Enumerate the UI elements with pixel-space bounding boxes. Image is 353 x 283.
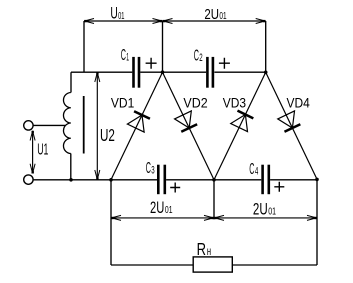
label C4 (249, 161, 258, 178)
node apex 2 (264, 71, 268, 75)
extension line left (83, 21, 85, 72)
dimension U1 (30, 131, 35, 174)
svg-text:U1: U1 (37, 141, 48, 158)
dimension line 2U01 bottom right (214, 215, 317, 220)
node bottom left (109, 178, 113, 182)
node transformer bottom (69, 178, 73, 182)
label C3 (146, 160, 155, 177)
dimension line 2U01 bottom left (111, 215, 214, 220)
transformer core (83, 96, 85, 154)
wire diagonal 1 (111, 72, 163, 180)
label 2U01 bottom left (150, 198, 173, 217)
svg-text:C: C (194, 48, 199, 65)
svg-text:VD4: VD4 (287, 94, 310, 110)
node bottom mid (212, 178, 216, 182)
label 2U01 bottom right (253, 200, 276, 219)
svg-text:3: 3 (151, 165, 154, 177)
svg-text:R: R (197, 239, 206, 259)
svg-text:2U: 2U (150, 198, 164, 217)
svg-text:01: 01 (165, 205, 173, 216)
svg-text:01: 01 (118, 11, 125, 22)
diode VD1 (127, 111, 150, 132)
terminal bottom (24, 175, 33, 184)
wire diagonal 4 (266, 72, 317, 179)
svg-text:C: C (146, 160, 151, 177)
extension line bottom mid (213, 180, 215, 220)
svg-text:4: 4 (255, 166, 258, 178)
wire top rail (71, 71, 266, 73)
plus sign C1 (146, 58, 157, 69)
diode VD2 (175, 111, 198, 132)
label C1 (121, 47, 129, 64)
svg-text:01: 01 (268, 207, 276, 218)
transformer winding T1 (70, 72, 72, 180)
svg-text:2U: 2U (253, 200, 268, 219)
svg-text:н: н (207, 244, 211, 258)
label C2 (194, 48, 203, 65)
node bottom right (315, 178, 319, 182)
capacitor C1 (134, 57, 140, 88)
wire load loop left (110, 180, 112, 265)
svg-text:U2: U2 (100, 125, 115, 145)
capacitor C3 (158, 165, 165, 195)
svg-text:U: U (110, 5, 117, 23)
capacitor C2 (207, 57, 213, 88)
label 2U01 top (204, 6, 226, 23)
svg-text:C: C (249, 161, 254, 178)
svg-text:VD2: VD2 (183, 94, 207, 110)
resistor RH (193, 257, 232, 272)
diode VD3 (231, 110, 254, 131)
plus sign C3 (170, 183, 180, 193)
svg-text:01: 01 (219, 11, 226, 22)
wire bottom rail (33, 179, 317, 181)
capacitor C4 (263, 165, 269, 195)
wire diagonal 3 (214, 72, 266, 180)
plus sign C2 (219, 58, 230, 69)
dimension line U01 (84, 19, 163, 24)
wire tap (33, 124, 65, 126)
wire diagonal 2 (163, 72, 215, 180)
coil arcs (63, 93, 70, 154)
svg-text:VD3: VD3 (223, 94, 246, 110)
svg-text:2U: 2U (204, 6, 219, 23)
svg-text:C: C (121, 47, 126, 64)
wire load bottom (111, 264, 317, 266)
wire load loop right (316, 179, 318, 265)
svg-text:1: 1 (126, 52, 129, 64)
svg-text:2: 2 (199, 52, 202, 64)
node apex 1 (161, 70, 165, 74)
plus sign C4 (274, 182, 284, 192)
extension line right (265, 21, 267, 72)
terminal top (24, 121, 33, 130)
dimension line 2U01 top (163, 19, 266, 24)
dimension U2 (95, 72, 100, 180)
label U01 (110, 5, 124, 23)
extension line mid (162, 21, 164, 72)
svg-text:VD1: VD1 (111, 94, 135, 110)
diode VD4 (278, 111, 301, 132)
label RH (197, 239, 211, 259)
